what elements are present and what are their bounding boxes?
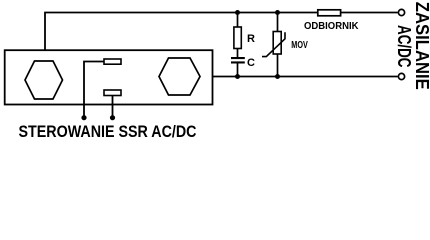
svg-text:AC/DC: AC/DC bbox=[394, 25, 414, 68]
wire MOV branch bottom bbox=[277, 54, 279, 77]
capacitor C1 plate bottom bbox=[231, 61, 245, 63]
terminal circle bottom (ZASILANIE -) bbox=[398, 73, 404, 79]
capacitor C1 (snubber C) plate top bbox=[231, 57, 245, 59]
triac symbol hexagon right bbox=[159, 58, 200, 95]
node junction dot MOV bottom bbox=[275, 74, 280, 79]
resistor R1 (snubber R) bbox=[234, 27, 241, 49]
wire R/C branch top bbox=[237, 13, 239, 29]
svg-text:R: R bbox=[247, 33, 255, 45]
wire from top rail down to SSR box bbox=[44, 13, 46, 62]
SSR box (STEROWANIE SSR AC/DC module) bbox=[5, 50, 213, 104]
wire top rail bbox=[44, 12, 398, 14]
triac symbol hexagon left bbox=[25, 61, 63, 99]
terminal circle top (ZASILANIE +) bbox=[398, 9, 404, 15]
control terminal dot 2 bbox=[110, 115, 115, 120]
wire R to C bbox=[237, 48, 239, 58]
control terminal dot 1 bbox=[81, 115, 86, 120]
wire C to bottom rail bbox=[237, 63, 239, 77]
node junction dot MOV top bbox=[275, 10, 280, 15]
resistor rect2 (input network bottom) bbox=[104, 90, 121, 96]
wire from rect2 to control input 2 bbox=[112, 96, 114, 118]
node junction dot R/C top bbox=[235, 10, 240, 15]
varistor MOV diagonal stroke bbox=[262, 32, 285, 56]
resistor ODBIORNIK (load) bbox=[318, 10, 341, 16]
wire bracket to control input 1 bbox=[84, 62, 104, 118]
svg-text:MOV: MOV bbox=[291, 40, 308, 51]
varistor MOV body bbox=[273, 32, 281, 55]
wire bottom rail bbox=[199, 76, 398, 78]
node junction dot R/C bottom bbox=[235, 74, 240, 79]
svg-text:C: C bbox=[247, 57, 255, 69]
svg-text:ODBIORNIK: ODBIORNIK bbox=[304, 21, 359, 32]
resistor rect1 (input network top) bbox=[104, 59, 121, 64]
svg-text:STEROWANIE SSR AC/DC: STEROWANIE SSR AC/DC bbox=[19, 123, 197, 141]
wire MOV branch top bbox=[277, 13, 279, 33]
